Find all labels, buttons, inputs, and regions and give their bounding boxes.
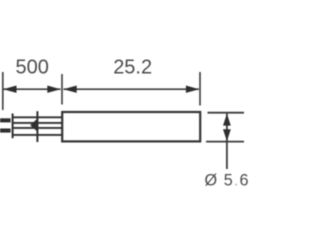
- arrowhead up of diameter dim: [223, 114, 231, 126]
- cable break line left: [12, 114, 14, 139]
- diameter extension line top: [208, 112, 245, 114]
- extension line right (end of 25.2 dim): [199, 72, 201, 106]
- wire stub bottom (bare end): [0, 129, 11, 133]
- wire bottom lower outline: [14, 134, 63, 136]
- arrowhead down of diameter dim: [223, 129, 231, 141]
- arrowhead left of 500 dim: [3, 86, 16, 93]
- sensor body cylinder: [62, 112, 200, 141]
- wire stub top (bare end): [0, 118, 11, 122]
- dimension line 25.2: [64, 88, 199, 90]
- wire bottom upper outline: [14, 127, 63, 129]
- arrowhead right of 25.2 dim: [186, 86, 199, 93]
- cable break line right: [36, 111, 38, 142]
- extension line left (start of 500 dim): [2, 72, 4, 110]
- wire top lower outline: [14, 122, 63, 124]
- diameter extension line bottom: [206, 141, 244, 143]
- cable break chevron: [30, 118, 38, 133]
- wire top upper outline: [14, 116, 63, 118]
- arrowhead left of 25.2 dim: [63, 86, 76, 93]
- arrowhead right of 500 dim: [47, 86, 60, 93]
- extension line middle (between 500 and 25.2): [61, 74, 63, 105]
- diameter dimension line vertical: [226, 114, 228, 169]
- svg-text:Ø 5.6: Ø 5.6: [205, 172, 250, 190]
- svg-text:500: 500: [16, 56, 49, 78]
- dimension line 500: [4, 88, 61, 90]
- svg-text:25.2: 25.2: [113, 56, 152, 78]
